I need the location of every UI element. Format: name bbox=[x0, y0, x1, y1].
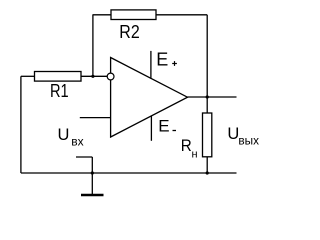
wire: R1 right lead to op-amp inverting input bbox=[81, 75, 107, 77]
ground bbox=[81, 194, 104, 197]
wire: input lower stub horizontal bbox=[76, 156, 92, 158]
pin E+ supply lead bbox=[150, 51, 152, 79]
svg-text:н: н bbox=[192, 148, 198, 160]
svg-text:E: E bbox=[158, 116, 169, 135]
svg-text:E: E bbox=[156, 50, 168, 70]
wire: R_n bottom lead bbox=[206, 157, 208, 173]
wire: right rail down to output node bbox=[206, 15, 208, 97]
wire: left rail down to bottom wire bbox=[20, 76, 22, 173]
wire: R1 left lead bbox=[21, 75, 35, 77]
svg-text:R1: R1 bbox=[50, 81, 69, 101]
resistor R_n load bbox=[203, 113, 212, 157]
wire: R2 right lead to right rail bbox=[156, 14, 207, 16]
wire: non-inverting input stub bbox=[80, 117, 111, 119]
wire: R2 left lead bbox=[93, 14, 112, 16]
op-amp U1 triangle bbox=[111, 58, 188, 138]
svg-text:вых: вых bbox=[238, 136, 259, 148]
node: junction dot at R1/R2 inverting input bbox=[91, 75, 94, 78]
resistor R2 bbox=[111, 10, 156, 20]
svg-text:R2: R2 bbox=[119, 22, 139, 42]
wire: input lower stub vertical to ground bbox=[91, 157, 93, 195]
resistor R1 bbox=[35, 72, 82, 82]
wire: vertical from R2 left down to inverting-input node bbox=[92, 15, 94, 77]
svg-text:U: U bbox=[58, 126, 70, 144]
svg-text:R: R bbox=[181, 136, 192, 155]
wire: R_n top lead bbox=[206, 97, 208, 113]
node: output junction dot bbox=[206, 95, 209, 98]
svg-text:вх: вх bbox=[71, 135, 83, 149]
node: junction dot R_n to bottom rail bbox=[206, 171, 209, 174]
node: junction dot bottom ground stub bbox=[91, 171, 94, 174]
wire: bottom rail bbox=[21, 172, 237, 174]
pin E- supply lead bbox=[150, 116, 152, 141]
wire: op-amp output to right terminal bbox=[188, 96, 237, 98]
op-amp inverting input inversion circle bbox=[107, 73, 114, 80]
